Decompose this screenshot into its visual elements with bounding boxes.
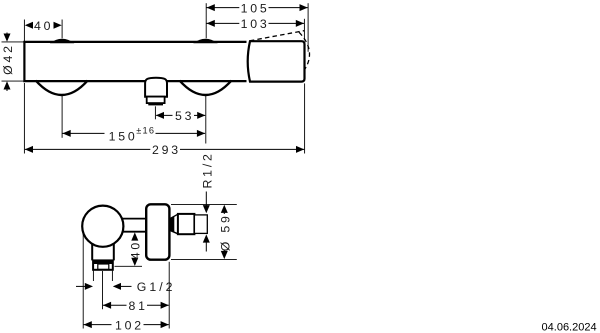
svg-text:105: 105 xyxy=(241,1,270,15)
svg-text:R1/2: R1/2 xyxy=(200,151,214,188)
svg-text:102: 102 xyxy=(115,318,144,332)
svg-text:293: 293 xyxy=(152,143,181,157)
svg-text:103: 103 xyxy=(241,17,270,31)
svg-text:81: 81 xyxy=(128,299,147,313)
svg-text:40: 40 xyxy=(129,240,143,259)
svg-text:±16: ±16 xyxy=(136,125,155,135)
svg-text:Ø42: Ø42 xyxy=(1,43,15,75)
svg-text:150: 150 xyxy=(109,130,138,144)
svg-text:Ø 59: Ø 59 xyxy=(218,213,232,251)
svg-text:40: 40 xyxy=(34,19,53,33)
svg-text:04.06.2024: 04.06.2024 xyxy=(542,322,597,333)
svg-text:G1/2: G1/2 xyxy=(137,280,176,294)
svg-text:53: 53 xyxy=(175,109,194,123)
